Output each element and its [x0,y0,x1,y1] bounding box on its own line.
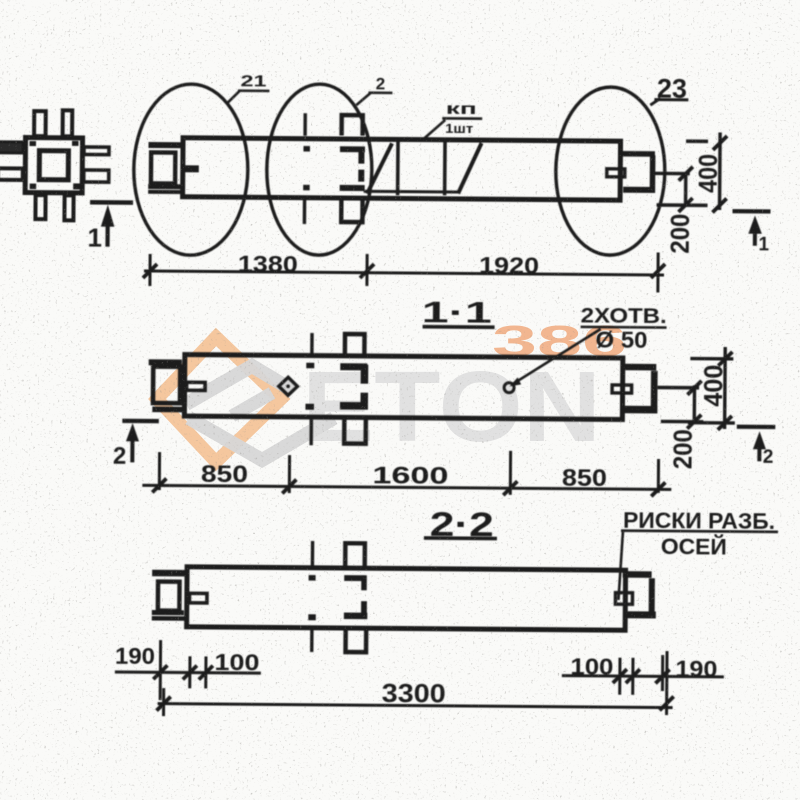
section marker 2 (right of section 1-1) [736,425,775,468]
s22 dim slash left 1 [153,665,167,679]
s22 dim slash right 2 [626,669,640,683]
s11 right joint bottom bar [625,406,658,414]
column outer square [25,138,82,193]
s22 3300 slash right [660,696,674,710]
section marker 1 (left, under cross section) [87,200,133,253]
dim tick right [656,252,659,292]
s11 hole circle [504,383,514,393]
s11 dim slash 2 [282,479,296,493]
s22 dim line 3300 [158,704,673,708]
s11 lifting diamond [279,377,298,395]
s11 dim 400 extension bottom [688,421,735,425]
plan dim 400 slash top [713,136,727,150]
s22 3300 slash left [157,697,171,711]
s11 dim 400 line [723,347,727,429]
s22 console axis below [310,630,314,652]
s22 left joint bottom bar [152,610,184,615]
s11 left joint top bar [149,359,182,365]
corner dot bottom-left [30,184,37,190]
bottom tab right [64,195,73,220]
watermark gray chevron band upper [186,366,292,404]
right arm upper [84,147,109,155]
s22 console dot upper [309,575,316,581]
s11 dim 400 extension top [690,357,733,361]
plan dim 200 slash top [679,167,693,181]
plan dim 400 extension top [686,140,708,144]
s22 dim tick left tall [159,640,162,700]
s11 right axis line [658,386,699,390]
dim slash left [143,264,157,278]
dim tick left [148,254,151,286]
watermark gray chevron band middle [232,393,272,416]
s11 dim tick 2 [288,455,291,493]
s11 dim 200 slash bottom [687,415,701,429]
s22 C bracket bottom bar [344,613,367,620]
s11 hat channel below [344,419,366,444]
plan hat channel above [342,115,363,136]
marker 2 right stem [757,448,761,461]
plan right anchor tab [607,169,625,177]
s11 right joint right vert [651,371,658,414]
s22 C bracket lower vert [361,601,367,616]
ellipse 23 [555,87,665,256]
section 2-2 title underline [424,536,497,540]
dim line 1380-1920 [144,271,664,275]
plan console axis above [303,113,307,135]
s22 C bracket upper vert [361,575,367,590]
marker 1 right stem [753,233,757,246]
bottom tab left [35,195,45,219]
s22 left joint box [158,582,180,611]
marker 2 left stem [130,440,134,463]
label 2 holes underline [581,326,667,329]
plan hat channel below [341,200,362,222]
s11 hat channel above [345,334,365,358]
s11 dim tick 1 [158,452,161,490]
s22 3300 tick left [162,688,165,716]
marker 1 left arrow [101,205,115,227]
plan dim 400 slash bottom [712,198,726,212]
top tab right [63,110,73,136]
plan left joint box [151,152,175,183]
corner dot top-right [72,141,79,146]
s11 console axis below [309,418,313,445]
plan console dot upper [303,146,310,152]
s22 3300 tick right [665,651,669,715]
s11 dim tick 3 [509,451,512,495]
s22 console dot lower [308,614,316,620]
section 1-1 beam outline [184,355,622,420]
section 1-1 bottom dimension 850/1600/850 [142,448,671,497]
s22 dim slash left 2 [183,665,197,679]
s11 dim 200 slash top [687,381,701,395]
plan console dot lower [303,185,310,191]
plan beam outline [183,138,621,200]
s11 dim slash 1 [152,478,166,492]
plan bottom dimension line 1380/1920 [143,248,665,292]
hole leader line [511,328,600,385]
s11 C bracket lower vert [360,393,368,406]
plan C bracket lower vert [358,170,364,182]
label 21 leader [227,91,239,103]
label 23 leader [650,98,660,105]
top tab left [34,111,46,136]
section 1-1 title underline [423,325,495,329]
s22 left joint top bar [152,570,185,577]
marker 1 left stem [105,225,109,247]
s11 console dot lower [305,404,314,410]
s22 dim line left [115,672,261,673]
corner dot bottom-right [73,183,80,189]
left arm lower [0,168,23,180]
s11 right joint top bar [621,364,656,371]
plan dim 200 line [684,174,688,205]
s22 right joint bottom bar [627,611,656,618]
s11 C bracket upper vert [361,365,369,384]
s22 dim slash left 3 [199,666,213,680]
s11 dim line [142,485,671,489]
s11 dim slash 4 [651,482,665,496]
label 23 underline [654,98,688,101]
section 1-1 right dimensions [660,347,735,470]
plan opening vertical 2 [443,140,447,195]
s22 dim tick right 3 [661,655,664,691]
s11 dim 200 extension bottom [661,420,703,424]
s22 dim slash right 1 [613,669,627,683]
plan left joint top bar [148,142,183,148]
marker 2 right line [737,425,776,430]
label 21 underline [238,89,269,92]
section marker 1 (right of plan) [732,209,770,255]
plan right joint bottom bar [623,187,655,193]
label 2 underline [368,92,392,95]
dim slash right [651,264,665,278]
s11 dim 200 line [693,385,697,422]
s11 left joint lower bar [152,407,184,413]
s22 dim tick right 2 [631,658,634,695]
s11 left joint box [153,367,180,404]
s11 C bracket bottom bar [340,402,368,410]
right arm lower [84,170,109,182]
plan left joint bottom bar [148,184,180,189]
kp underline [442,117,482,120]
plan console axis below [303,200,307,224]
corner dot top-left [29,141,36,146]
section 2-2 beam outline [187,567,626,630]
s22 dim tick right 1 [618,658,621,695]
watermark gray chevron band lower [189,418,334,460]
plan right axis line [655,172,690,176]
plan left anchor tab [185,165,199,172]
plan right joint right vert [650,155,656,192]
section 2-2 bottom dimensions [115,640,725,721]
plan right joint top bar [622,151,655,157]
marker 1 left line [90,200,133,205]
s11 console dot upper [306,363,314,369]
s22 hat channel below [346,631,367,653]
s22 dim slash right 3 [655,669,669,683]
s22 dim tick left 2 [188,656,191,688]
plan dim extension bottom [657,203,708,207]
marker 1 right line [732,209,770,213]
dim slash middle [360,264,374,278]
hole leader arrowhead [510,377,522,386]
left arm upper [0,142,23,153]
s11 console axis above [310,333,314,354]
section marker 2 (left of section 1-1) [113,419,159,470]
plan left joint lower bar [148,190,180,194]
plan C bracket top bar [340,146,365,152]
axis marks leader [618,531,623,600]
s22 console axis above [311,541,315,566]
s11 dim 400 slash top [718,352,732,366]
ellipse 2 [266,84,372,256]
plan opening bottom line [364,190,460,194]
plan dim 200 slash bottom [678,198,692,212]
plan dim 400 line [718,132,722,209]
plan opening vertical 1 [396,140,400,195]
s11 diamond dot [286,384,290,388]
watermark group (untilted, added digitally over scan) [157,317,627,463]
s11 anchor tab left [187,382,206,390]
plan opening diagonal left [367,143,392,194]
column inner square [39,151,68,180]
s22 left joint lower bar [152,616,185,621]
s22 anchor tab left [189,593,207,603]
label 2 leader [356,93,370,105]
s22 dim line right [562,676,724,677]
s22 right joint right vert [649,578,655,616]
s22 hat channel above [345,543,365,566]
kp leader [424,120,445,139]
main drawing group, slight scan tilt [0,68,782,721]
s11 dim tick 4 [657,459,660,493]
s22 dim tick left 3 [204,656,207,688]
plan C bracket upper vert [358,148,364,164]
plan right dimensions [656,132,727,254]
s22 C bracket top bar [344,575,365,581]
marker 1 right arrow [748,215,762,233]
ellipse 21 [133,84,248,256]
s22 right joint top bar [623,571,652,578]
s11 C bracket top bar [340,363,367,370]
marker 2 left arrow [126,423,139,441]
watermark orange diamond logo [157,337,281,462]
axis marks label underline [621,531,778,532]
s11 dim 400 slash bottom [718,416,732,430]
s11 dim slash 3 [503,481,517,495]
s22 anchor tab right [615,593,632,605]
plan opening diagonal right [458,143,481,194]
dim tick middle [365,254,368,286]
marker 2 right arrow [753,431,766,449]
marker 2 left line [122,419,159,424]
plan C bracket bottom bar [340,185,365,191]
s11 anchor tab right [612,385,632,393]
